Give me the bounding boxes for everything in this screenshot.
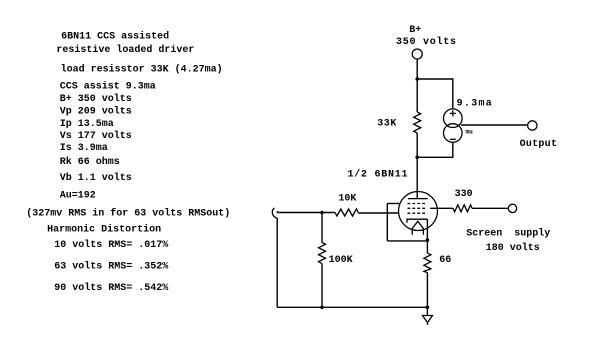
tube U1 envelope bbox=[399, 192, 438, 231]
resistor 66 bbox=[424, 253, 431, 273]
svg-text:66: 66 bbox=[439, 255, 451, 266]
svg-text:CCS assist 9.3ma: CCS assist 9.3ma bbox=[60, 80, 156, 92]
wire 66 to ground junction bbox=[426, 273, 428, 308]
svg-text:(327mv RMS in for 63 volts RMS: (327mv RMS in for 63 volts RMSout) bbox=[26, 207, 230, 219]
current source CCS top circle with plus bbox=[444, 109, 463, 128]
wire input ground drop bbox=[275, 217, 278, 307]
node junction C cathode bbox=[426, 238, 430, 242]
tube U1 grid g2 dashes bbox=[408, 207, 426, 209]
svg-text:Screen supply: Screen supply bbox=[466, 228, 550, 240]
wire junction A to 33K bbox=[416, 79, 418, 112]
tube U1 grid g3 dashes bbox=[408, 203, 426, 205]
wire g3 box bottom to junction C bbox=[387, 240, 427, 242]
svg-text:Vb 1.1 volts: Vb 1.1 volts bbox=[60, 172, 132, 184]
wire input to 10K bbox=[279, 212, 335, 214]
svg-text:Vp 209 volts: Vp 209 volts bbox=[60, 105, 132, 117]
svg-text:B+ 350 volts: B+ 350 volts bbox=[60, 93, 132, 105]
terminal Screen supply bbox=[508, 204, 516, 212]
wire g3 box left vertical bbox=[386, 204, 388, 241]
svg-text:33K: 33K bbox=[377, 119, 397, 130]
svg-text:180 volts: 180 volts bbox=[486, 242, 540, 254]
wire ground rail bbox=[277, 306, 427, 308]
wire g2 to 330 resistor bbox=[430, 207, 453, 209]
wire cathode to junction C bbox=[426, 219, 428, 240]
resistor 330 bbox=[453, 205, 472, 212]
svg-text:63 volts RMS= .352%: 63 volts RMS= .352% bbox=[54, 261, 168, 273]
resistor 100K bbox=[319, 243, 326, 264]
terminal Input jack pin bbox=[277, 211, 279, 213]
svg-text:resistive loaded driver: resistive loaded driver bbox=[56, 44, 194, 56]
node junction E rail left bbox=[320, 306, 324, 310]
tube U1 cathode bracket bbox=[407, 219, 427, 223]
tube U1 heater filament bbox=[412, 221, 423, 235]
svg-text:10K: 10K bbox=[338, 194, 356, 205]
wire 33K to junction B bbox=[416, 133, 418, 157]
svg-text:B+: B+ bbox=[409, 25, 421, 36]
svg-text:10 volts RMS= .017%: 10 volts RMS= .017% bbox=[54, 239, 168, 251]
svg-text:Vs 177 volts: Vs 177 volts bbox=[60, 130, 132, 142]
svg-text:1/2 6BN11: 1/2 6BN11 bbox=[348, 168, 409, 180]
node junction A bbox=[415, 77, 419, 81]
ground bbox=[423, 316, 433, 323]
svg-text:9.3ma: 9.3ma bbox=[457, 99, 494, 110]
tube U1 grid g1 dashes bbox=[408, 212, 426, 214]
svg-text:load resisstor 33K (4.27ma): load resisstor 33K (4.27ma) bbox=[61, 64, 223, 76]
svg-text:Rk 66 ohms: Rk 66 ohms bbox=[60, 156, 120, 168]
tube U1 plate bbox=[408, 198, 428, 200]
svg-text:Au=192: Au=192 bbox=[60, 191, 96, 202]
svg-text:Is 3.9ma: Is 3.9ma bbox=[60, 143, 108, 154]
wire junction A to CCS top bbox=[417, 79, 453, 109]
wire junction B to plate bbox=[416, 157, 418, 198]
node junction D input bbox=[320, 211, 324, 215]
svg-text:330: 330 bbox=[455, 189, 473, 200]
svg-text:Ip 13.5ma: Ip 13.5ma bbox=[60, 119, 114, 130]
svg-text:100K: 100K bbox=[329, 255, 353, 266]
resistor 10K bbox=[335, 209, 358, 216]
wire junction C to 66 resistor bbox=[426, 240, 428, 253]
wire 330 to screen terminal bbox=[472, 207, 508, 209]
wire CCS bottom to junction B bbox=[417, 142, 453, 157]
terminal Output bbox=[528, 121, 537, 130]
node junction B bbox=[415, 156, 419, 160]
wire 100K to ground rail bbox=[321, 264, 323, 308]
wire CCS to output terminal bbox=[461, 124, 528, 126]
wire 10K to grid g1 bbox=[358, 212, 398, 214]
wire g3 box top bbox=[387, 203, 400, 205]
svg-text:mu: mu bbox=[466, 129, 474, 136]
svg-text:Output: Output bbox=[520, 139, 558, 150]
svg-text:Harmonic Distortion: Harmonic Distortion bbox=[47, 224, 161, 236]
svg-text:350 volts: 350 volts bbox=[396, 36, 457, 48]
svg-text:6BN11 CCS assisted: 6BN11 CCS assisted bbox=[61, 30, 169, 42]
terminal B+ bbox=[412, 49, 422, 59]
current source CCS bottom circle with minus bbox=[444, 124, 463, 143]
svg-text:90 volts RMS= .542%: 90 volts RMS= .542% bbox=[54, 282, 168, 294]
wire B+ terminal to junction A bbox=[416, 59, 418, 79]
node junction F ground bbox=[426, 306, 430, 310]
terminal Input jack arc bbox=[272, 208, 274, 217]
wire junction D to 100K bbox=[321, 213, 323, 243]
resistor 33K bbox=[414, 112, 421, 133]
wire to ground symbol bbox=[426, 307, 428, 315]
